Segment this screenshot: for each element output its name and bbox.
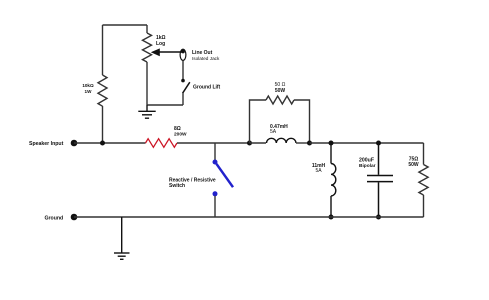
svg-text:Ground: Ground [45, 216, 64, 222]
potentiometer VR1 1kOhm Log [143, 25, 152, 105]
node junction RL network left [247, 141, 252, 146]
node junction L2 top [329, 141, 334, 146]
wire switch SW2 bottom to ground rail [214, 196, 216, 217]
capacitor C1 200uF bipolar [367, 143, 393, 217]
svg-text:200W: 200W [174, 132, 187, 138]
svg-text:Speaker Input: Speaker Input [29, 141, 64, 147]
wire speaker input to resistor R2 [74, 142, 146, 144]
wire rail into inductor L1 [250, 142, 267, 144]
wiper arrow of potentiometer [158, 51, 183, 53]
resistor R2 8Ohm 200W (red) [146, 139, 177, 148]
wire R2 to RL network [177, 142, 250, 144]
svg-text:1W: 1W [85, 89, 93, 94]
switch SW1 ground lift [181, 79, 185, 83]
svg-text:Bipolar: Bipolar [359, 163, 376, 169]
svg-text:5A: 5A [270, 129, 277, 135]
ground symbol on ground rail [114, 217, 130, 259]
svg-text:5A: 5A [315, 168, 322, 174]
svg-text:Switch: Switch [169, 183, 185, 189]
wire RL network right riser [294, 100, 310, 143]
node junction C1 top [376, 141, 381, 146]
svg-text:200uF: 200uF [359, 158, 374, 164]
svg-text:50W: 50W [275, 88, 286, 94]
svg-text:50W: 50W [408, 162, 419, 168]
resistor R4 75Ohm 50W [419, 143, 428, 217]
node junction L2 bottom [329, 215, 334, 220]
inductor L1 0.47mH 5A [267, 138, 296, 143]
wire ground rail [74, 216, 424, 218]
wire main rail to load [310, 142, 424, 144]
node junction RL network right [307, 141, 312, 146]
line out isolated jack J1 [180, 49, 186, 60]
node junction C1 bottom [376, 215, 381, 220]
wire top connecting R1 and potentiometer [103, 24, 148, 26]
inductor L2 11mH 5A [331, 143, 336, 217]
svg-text:Isolated Jack: Isolated Jack [192, 56, 220, 61]
node junction at R1 bottom [100, 141, 105, 146]
wire inductor L1 to rail [296, 142, 310, 144]
svg-text:Log: Log [156, 41, 165, 47]
svg-text:Ground Lift: Ground Lift [193, 85, 221, 91]
wire RL network left riser [250, 100, 267, 143]
resistor R1 10kOhm 1W [98, 25, 107, 143]
wire stub to switch SW2 top [214, 143, 216, 160]
wire jack to ground lift switch [182, 60, 184, 79]
resistor R3 50Ohm 50W [266, 96, 294, 104]
ground symbol under potentiometer [138, 105, 155, 118]
wire switch bottom to pot ground [147, 104, 183, 106]
svg-text:8Ω: 8Ω [174, 126, 181, 132]
svg-text:10kΩ: 10kΩ [82, 83, 94, 88]
switch SW2 reactive/resistive (blue) [213, 160, 218, 165]
